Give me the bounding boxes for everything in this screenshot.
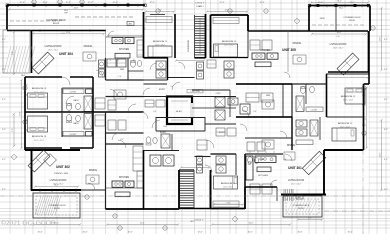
unit 305 sofa sectional xyxy=(337,53,359,75)
unit 304 living top wall xyxy=(7,30,106,32)
unit 302 deck inner dashed xyxy=(36,196,77,215)
svg-text:COVERED DECK: COVERED DECK xyxy=(293,205,310,207)
svg-text:10'-6" x 13'-2": 10'-6" x 13'-2" xyxy=(155,45,165,47)
unit 304 living left wall xyxy=(31,30,33,73)
unit 305 closet shelf xyxy=(306,107,323,112)
unit 304 left deck rail xyxy=(3,30,30,73)
svg-text:14'-8" x 16'-2": 14'-8" x 16'-2" xyxy=(333,48,344,50)
svg-text:10'-6": 10'-6" xyxy=(197,232,202,234)
unit 304 corridor double wall xyxy=(168,77,195,79)
dim string bottom margin 4 xyxy=(298,219,322,221)
dim string top margin 2 xyxy=(311,2,368,4)
unit 305 bath walls xyxy=(211,57,249,59)
unit 304 bedroom wing left wall xyxy=(24,77,26,150)
svg-text:9'-8": 9'-8" xyxy=(227,203,231,205)
wall y117 corridor south xyxy=(236,116,292,118)
unit 302 bath toilet xyxy=(66,115,71,122)
mid wall between bedrooms xyxy=(25,111,144,113)
keynote tag d xyxy=(296,195,303,199)
svg-text:LIVING ROOM: LIVING ROOM xyxy=(45,45,62,48)
unit 302 kitchen counter xyxy=(112,181,123,187)
unit 304 bath fixtures xyxy=(156,61,166,69)
svg-text:12'-0": 12'-0" xyxy=(225,10,230,12)
unit 302 laundry xyxy=(150,155,161,166)
svg-text:6'-2": 6'-2" xyxy=(120,139,124,141)
svg-text:COVERED DECK: COVERED DECK xyxy=(46,19,66,22)
svg-text:13'-6": 13'-6" xyxy=(380,152,382,157)
unit 301 kitchen counter xyxy=(246,156,253,180)
svg-text:9'-2": 9'-2" xyxy=(2,69,6,71)
wall y31 between b1 and living 305 xyxy=(248,30,311,32)
unit 304 bath walls xyxy=(144,57,168,59)
unit 305 wall y31 right xyxy=(311,30,368,32)
unit 304 den divider xyxy=(127,58,129,80)
unit 304 hall arc xyxy=(110,90,117,97)
corridor wall x205 mid xyxy=(204,117,206,131)
unit 305 living bottom wall xyxy=(328,71,369,73)
unit 304 top wall column ticks xyxy=(33,4,129,6)
unit 301 right wall xyxy=(363,84,365,150)
dim string top margin 1 xyxy=(9,9,143,11)
unit 302 closet shelf xyxy=(63,132,84,137)
svg-text:10'-6": 10'-6" xyxy=(297,232,302,234)
unit 302 linen row xyxy=(108,120,116,130)
unit 301 living right wall xyxy=(323,150,325,195)
corridor wall y108 right xyxy=(192,107,236,109)
unit 302 bath sink xyxy=(76,115,81,121)
unit 302 bedroom1 window xyxy=(218,207,238,209)
unit 302 bath2 sink xyxy=(153,138,157,144)
dim string 305 below wall xyxy=(312,33,366,35)
window ticks top wall 305 xyxy=(315,4,362,7)
unit 302 wall y144 hall xyxy=(106,143,144,145)
den 305 table xyxy=(262,100,274,109)
top stair arrow xyxy=(199,18,201,54)
top stair left wall xyxy=(194,15,196,58)
unit 304 den wall y80 xyxy=(106,79,144,81)
unit 304 left deck hatch xyxy=(4,46,35,73)
unit 302 bedroom1 left wall xyxy=(210,175,212,209)
door arcs cluster b xyxy=(242,110,249,117)
svg-text:BATH: BATH xyxy=(74,99,80,102)
unit 305 bedroom2 left wall xyxy=(326,74,328,117)
unit 302 bath2 toilet xyxy=(146,137,151,143)
svg-text:DEN: DEN xyxy=(320,18,325,20)
unit 304 bedroom2 door arc xyxy=(62,77,70,85)
unit 301 bedroom1 bed xyxy=(332,128,356,141)
unit 302 bath wall x62 xyxy=(61,113,63,137)
bottom stair left wall xyxy=(178,170,180,208)
svg-text:DEN: DEN xyxy=(260,159,265,161)
svg-text:10'-6": 10'-6" xyxy=(37,232,42,234)
unit 302 deck hatch xyxy=(35,196,61,215)
dim string 304 left inside xyxy=(21,80,23,148)
deck roof dashed line right xyxy=(312,24,366,26)
svg-text:9'-2": 9'-2" xyxy=(2,189,6,191)
dim string left margin v2 xyxy=(13,114,15,146)
svg-text:14 R @ 7": 14 R @ 7" xyxy=(194,220,203,222)
closet row 305 xyxy=(207,60,216,68)
svg-text:12'-4": 12'-4" xyxy=(19,2,24,4)
svg-text:12'-4": 12'-4" xyxy=(349,2,354,4)
wall x277 step edge xyxy=(276,187,278,201)
svg-text:A5.1: A5.1 xyxy=(129,23,133,26)
svg-text:DINING: DINING xyxy=(293,42,302,45)
unit 302 bath fixtures mid xyxy=(216,156,226,164)
unit 301 bath2 toilet xyxy=(248,157,253,163)
svg-text:10'-6": 10'-6" xyxy=(127,232,132,234)
unit 302 bedroom3 bed xyxy=(28,116,48,132)
unit 301 bath2 wall xyxy=(244,154,246,187)
svg-text:©2021 GCI GDOR: ©2021 GCI GDOR xyxy=(1,219,56,227)
dim string kitchen 304 xyxy=(108,34,142,36)
corr niche walls xyxy=(156,117,205,119)
unit 304 deck-roof lower line xyxy=(7,25,143,27)
unit 304 wd stack xyxy=(99,60,105,68)
svg-text:COVERED DECK: COVERED DECK xyxy=(343,17,361,19)
unit 301 bedroom1 bottom wall xyxy=(324,149,364,151)
svg-text:CLOSET: CLOSET xyxy=(311,110,318,112)
unit 301 deck outline xyxy=(283,196,322,217)
svg-text:9'-2": 9'-2" xyxy=(384,99,388,101)
svg-text:11'-2" x 12'-0": 11'-2" x 12'-0" xyxy=(34,92,45,94)
bedroom1 302 closet xyxy=(213,201,239,207)
mid bath cluster 305 south xyxy=(215,97,225,107)
unit 302 dining table xyxy=(86,175,99,184)
bottom stair bottom wall xyxy=(179,208,211,210)
svg-text:11'-2" x 12'-0": 11'-2" x 12'-0" xyxy=(343,100,354,102)
unit 304 den door arc xyxy=(128,104,136,112)
unit 305 bath toilet xyxy=(300,87,305,94)
corridor wall y96 right xyxy=(192,96,236,98)
window ticks bottom wall 302 xyxy=(40,189,76,193)
unit 304 dresser xyxy=(86,89,93,94)
unit 301 bath walls xyxy=(291,117,293,150)
svg-text:12'-4": 12'-4" xyxy=(259,2,264,4)
unit 302 bath2 shower xyxy=(161,134,170,148)
svg-text:KITCHEN: KITCHEN xyxy=(119,49,129,51)
elevator cab lines xyxy=(171,100,188,102)
unit 302 pantry shelves xyxy=(137,171,143,188)
unit 302 hall arc xyxy=(112,133,119,140)
svg-text:BEDROOM #2: BEDROOM #2 xyxy=(32,88,47,90)
bottom stair treads xyxy=(180,172,194,208)
unit 302 entry arcs xyxy=(152,120,160,128)
unit 304 closet shelf xyxy=(63,89,84,94)
dim string top center right xyxy=(207,11,247,13)
deck 301 left dense hatch xyxy=(284,189,293,201)
svg-text:UNIT 305: UNIT 305 xyxy=(282,48,296,52)
svg-text:22'-4": 22'-4" xyxy=(140,223,145,225)
unit 304 left exterior wall xyxy=(6,5,8,30)
entry 301 closet rects xyxy=(216,128,225,136)
unit 302 closets mid xyxy=(197,140,207,150)
unit 305 kitchen island xyxy=(255,62,271,67)
unit 302 bedroom1 bottom wall xyxy=(211,208,246,210)
svg-text:BEDROOM #1: BEDROOM #1 xyxy=(153,41,168,43)
unit 305 bath fixtures xyxy=(224,61,234,69)
svg-text:DINING: DINING xyxy=(89,170,97,172)
unit 301 linen row xyxy=(247,142,255,151)
svg-text:2 BDRM + DEN: 2 BDRM + DEN xyxy=(54,173,69,175)
svg-text:24'-2": 24'-2" xyxy=(249,223,254,225)
unit 304 bath toilet xyxy=(66,104,71,111)
unit 302 bath shower xyxy=(84,114,92,130)
unit 301 bath2 sink xyxy=(254,158,258,164)
unit 304 linen xyxy=(108,100,116,110)
top stair bottom wall xyxy=(195,57,206,59)
corner squares 304 wall xyxy=(6,4,9,7)
svg-text:5'-0": 5'-0" xyxy=(170,86,174,88)
window ticks left wall xyxy=(24,85,28,130)
svg-text:BEDROOM #3: BEDROOM #3 xyxy=(32,136,47,138)
svg-text:ENTRY: ENTRY xyxy=(160,132,167,134)
svg-text:21'-4": 21'-4" xyxy=(66,32,71,34)
corridor band right upper xyxy=(236,83,292,85)
door arc dining 305 xyxy=(284,72,290,78)
svg-text:18'-2": 18'-2" xyxy=(337,1,342,3)
svg-text:BEDROOM #2: BEDROOM #2 xyxy=(341,96,356,98)
svg-text:C-6: C-6 xyxy=(337,36,340,38)
dim string top center left xyxy=(146,11,174,13)
unit 305 bedroom1 left wall xyxy=(210,15,212,58)
unit 304 bedroom2 bed xyxy=(28,93,48,109)
bottom stair top wall xyxy=(179,169,194,171)
corridor band right lower xyxy=(236,116,292,118)
building interior mask xyxy=(8,6,369,208)
svg-text:12'-4": 12'-4" xyxy=(149,2,154,4)
unit 301 corridor double wall xyxy=(195,156,211,158)
unit 304 pantry shelves xyxy=(137,40,143,57)
svg-text:BEDROOM #1: BEDROOM #1 xyxy=(338,123,353,125)
svg-text:KITCHEN: KITCHEN xyxy=(258,175,268,177)
dim string bottom margin 2 xyxy=(107,224,178,226)
svg-text:ROOF: ROOF xyxy=(53,23,60,25)
unit 301 hall arc xyxy=(280,131,287,138)
svg-text:BEDROOM #1: BEDROOM #1 xyxy=(221,183,236,185)
unit 302 living top wall xyxy=(25,149,80,151)
unit 304 bath door arc xyxy=(66,96,74,104)
unit 304 dining table xyxy=(83,52,96,61)
unit 302 living left wall xyxy=(31,150,33,191)
deck roof dashed line left2 xyxy=(10,20,60,22)
unit 302 sofa sectional xyxy=(28,150,50,172)
svg-text:CORRIDOR: CORRIDOR xyxy=(188,40,190,52)
svg-text:12'-4": 12'-4" xyxy=(65,2,70,4)
den 305 wall xyxy=(282,84,284,117)
unit 304 wd closet wall xyxy=(105,58,107,80)
svg-text:18'-2": 18'-2" xyxy=(337,32,342,34)
unit 305 dining table xyxy=(293,55,306,64)
unit 304 bedroom1 left wall xyxy=(143,12,145,58)
unit 304 bedroom1 right wall xyxy=(167,57,169,80)
svg-text:12'-4": 12'-4" xyxy=(219,2,224,4)
mid closet cluster right xyxy=(246,93,259,102)
unit 305 bath walls xyxy=(291,84,293,117)
unit 304 bedroom1 bed xyxy=(148,46,172,57)
unit 302 bottom wall right part xyxy=(106,208,180,210)
top stair treads xyxy=(195,17,205,58)
svg-text:CLOSET: CLOSET xyxy=(70,92,77,94)
unit 302 kitchen wall line xyxy=(106,187,144,189)
svg-text:11'-2" x 12'-0": 11'-2" x 12'-0" xyxy=(340,127,351,129)
right jog wall y84 xyxy=(364,83,370,85)
window ticks top wall 304 xyxy=(18,4,138,7)
dim string bottom margin 3 xyxy=(212,224,290,226)
svg-text:12'-0" x 14'-2": 12'-0" x 14'-2" xyxy=(291,184,302,186)
unit 304 kitchen island xyxy=(115,53,130,58)
unit 302 bath2 wall xyxy=(144,150,180,152)
unit 301 den wall y154 xyxy=(245,153,283,155)
svg-text:12'-4": 12'-4" xyxy=(112,2,117,4)
unit 304 bath2 toilet xyxy=(131,61,136,67)
unit 304 den table xyxy=(114,90,126,99)
unit 305 top wall ticks xyxy=(317,4,356,6)
bedroom1 305 closet xyxy=(213,18,239,24)
svg-text:13'-6": 13'-6" xyxy=(380,36,382,41)
svg-text:CORR: CORR xyxy=(216,93,222,95)
dim string bottom margin 1 xyxy=(33,224,80,226)
unit 302 bedroom1 bed xyxy=(214,176,238,189)
unit 301 wd stack xyxy=(197,156,203,164)
unit 304 closet row xyxy=(107,59,116,67)
unit 302 bottom interior wall xyxy=(81,189,106,191)
deck roof dashed line left xyxy=(75,16,133,18)
elevator door gap xyxy=(191,103,193,117)
unit 301 dining table xyxy=(284,152,295,160)
svg-text:44'-8": 44'-8" xyxy=(74,8,79,10)
svg-text:KITCHEN: KITCHEN xyxy=(260,50,270,52)
svg-text:9'-2": 9'-2" xyxy=(2,159,6,161)
svg-text:LIVING ROOM: LIVING ROOM xyxy=(50,179,67,182)
margin dashdot h1 xyxy=(0,195,390,197)
unit 302 bedroom3 bottom wall xyxy=(25,147,62,149)
unit 305 living right wall xyxy=(368,31,370,72)
dim string right margin v1 xyxy=(381,8,383,70)
corridor wall 305 y84 xyxy=(236,83,292,85)
svg-text:ELEV: ELEV xyxy=(176,111,182,113)
entry door arc 301 exterior xyxy=(270,180,277,187)
svg-text:9'-2": 9'-2" xyxy=(384,69,388,71)
unit 302 hall wall y133 xyxy=(106,132,144,134)
svg-text:A5.1: A5.1 xyxy=(298,196,302,199)
unit 301 bottom wall xyxy=(281,194,326,196)
unit 301 kitchen island xyxy=(257,167,271,172)
unit 305 deck strip left wall xyxy=(308,6,310,32)
svg-text:LIVING ROOM: LIVING ROOM xyxy=(330,43,347,46)
dim string below 304 top wall xyxy=(33,33,104,35)
unit 301 den table xyxy=(262,140,274,149)
svg-text:12'-4": 12'-4" xyxy=(42,2,47,4)
svg-text:12'-4": 12'-4" xyxy=(87,2,92,4)
margin dashdot v1 xyxy=(362,150,364,234)
unit 302 bedroom1 right wall xyxy=(244,187,246,209)
elevator shaft xyxy=(167,97,192,125)
svg-text:UNIT 302: UNIT 302 xyxy=(56,165,70,169)
unit 302 bath wall x93 xyxy=(92,112,94,148)
svg-text:C-6: C-6 xyxy=(62,33,65,35)
unit 305 bath shower xyxy=(296,96,304,112)
svg-text:ROOF: ROOF xyxy=(298,208,304,210)
unit 305 bath wall y84 xyxy=(292,83,327,85)
unit 302 bottom wall xyxy=(31,189,81,191)
svg-text:14'-8" x 16'-2": 14'-8" x 16'-2" xyxy=(53,184,64,186)
hall closet 304 xyxy=(95,98,105,109)
building right wall mid xyxy=(368,31,370,84)
door arcs cluster c xyxy=(96,70,103,77)
unit 304 sofa sectional xyxy=(32,52,54,74)
unit 305 bedroom1 right wall xyxy=(247,15,249,31)
unit 304 window sill marks xyxy=(39,29,41,32)
keynote tag b xyxy=(127,22,134,26)
unit 304 bath wall x62 xyxy=(61,88,63,112)
entry 304 arcs xyxy=(172,82,180,90)
svg-text:W-4: W-4 xyxy=(21,75,24,77)
unit 301 deck hatch xyxy=(287,200,317,213)
unit 301 sofa sectional xyxy=(302,151,325,174)
svg-text:LIVING ROOM: LIVING ROOM xyxy=(288,179,304,182)
unit 302 dresser xyxy=(86,132,93,137)
svg-text:10'-6" x 13'-2": 10'-6" x 13'-2" xyxy=(223,187,233,189)
svg-text:UNIT 304: UNIT 304 xyxy=(59,52,73,56)
svg-text:10'-6" x 13'-2": 10'-6" x 13'-2" xyxy=(224,45,234,47)
unit 304 bath2 wall xyxy=(128,70,144,72)
margin dashdot h2 xyxy=(324,210,390,212)
dim string corr lower xyxy=(181,167,209,169)
svg-text:9'-0": 9'-0" xyxy=(12,51,14,55)
unit 305 top exterior wall xyxy=(309,5,370,7)
svg-text:COVERED DECK: COVERED DECK xyxy=(48,205,66,207)
corner squares 305 wall xyxy=(308,4,311,7)
dim string corr upper xyxy=(176,60,204,62)
svg-text:12'-4": 12'-4" xyxy=(317,2,322,4)
svg-text:14 R @ 7": 14 R @ 7" xyxy=(195,3,204,5)
svg-text:10'-6": 10'-6" xyxy=(247,232,252,234)
door arcs cluster d xyxy=(285,154,292,161)
svg-text:7'-0": 7'-0" xyxy=(118,76,122,78)
window ticks right wall xyxy=(362,95,366,135)
unit 304 bath2 sink xyxy=(137,61,141,67)
unit 304 den wall y96 xyxy=(106,96,144,98)
svg-text:17'-8": 17'-8" xyxy=(20,111,22,116)
svg-text:16'-4": 16'-4" xyxy=(365,115,367,120)
unit 304 bath wall x93 xyxy=(92,77,94,112)
svg-text:BATH: BATH xyxy=(74,122,80,125)
svg-text:9'-2": 9'-2" xyxy=(384,39,388,41)
bedroom1 304 closet xyxy=(146,17,172,23)
core wall x175 upper xyxy=(174,14,176,58)
unit 305 bedroom1 bed xyxy=(214,44,238,57)
corridor door arc bottom xyxy=(205,165,212,172)
unit 305 bath sink xyxy=(310,86,315,92)
unit 305 right wall upper xyxy=(369,6,371,32)
svg-text:KITCHEN: KITCHEN xyxy=(119,177,129,179)
svg-text:14'-8" x 16'-2": 14'-8" x 16'-2" xyxy=(48,50,59,52)
unit 302 closet wall y136 xyxy=(62,135,93,137)
dim string right margin v2 xyxy=(381,120,383,190)
unit 304 bedroom2 top wall xyxy=(25,76,62,78)
svg-text:4'-0": 4'-0" xyxy=(153,111,157,113)
unit 302 interior wall x143 xyxy=(143,150,145,209)
svg-text:DINING: DINING xyxy=(287,144,296,147)
unit 304 bath sink xyxy=(76,103,81,109)
svg-text:DEN: DEN xyxy=(120,69,125,71)
unit 305 closets top xyxy=(250,40,260,50)
unit 301 bath fixtures xyxy=(296,120,307,127)
dim string 302 bottom inside xyxy=(35,186,78,188)
closet boxes corr left xyxy=(145,100,154,107)
svg-text:ROOF: ROOF xyxy=(54,208,61,210)
